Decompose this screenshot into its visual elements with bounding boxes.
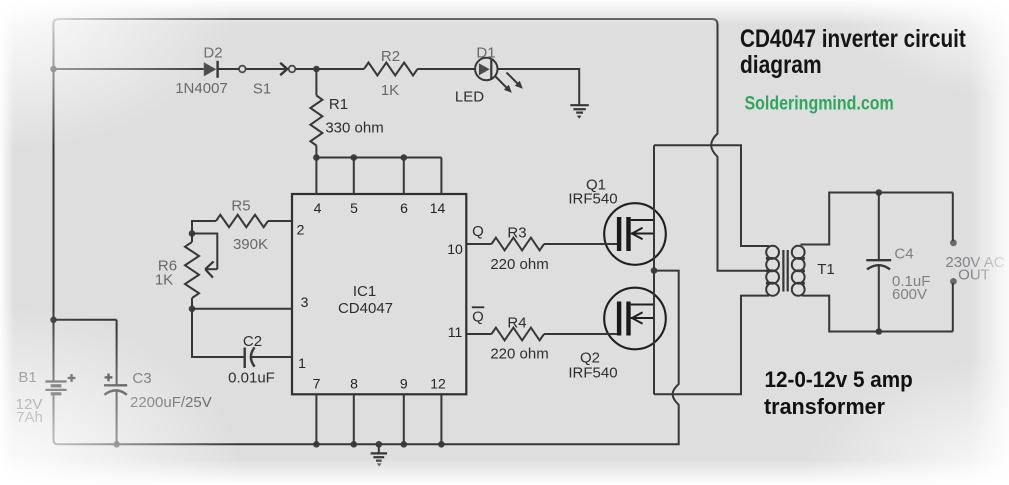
svg-text:transformer: transformer [764, 394, 885, 419]
svg-text:diagram: diagram [740, 51, 822, 79]
svg-text:12-0-12v 5 amp: 12-0-12v 5 amp [765, 367, 913, 392]
svg-text:Solderingmind.com: Solderingmind.com [745, 92, 894, 114]
svg-text:CD4047 inverter circuit: CD4047 inverter circuit [740, 25, 966, 53]
